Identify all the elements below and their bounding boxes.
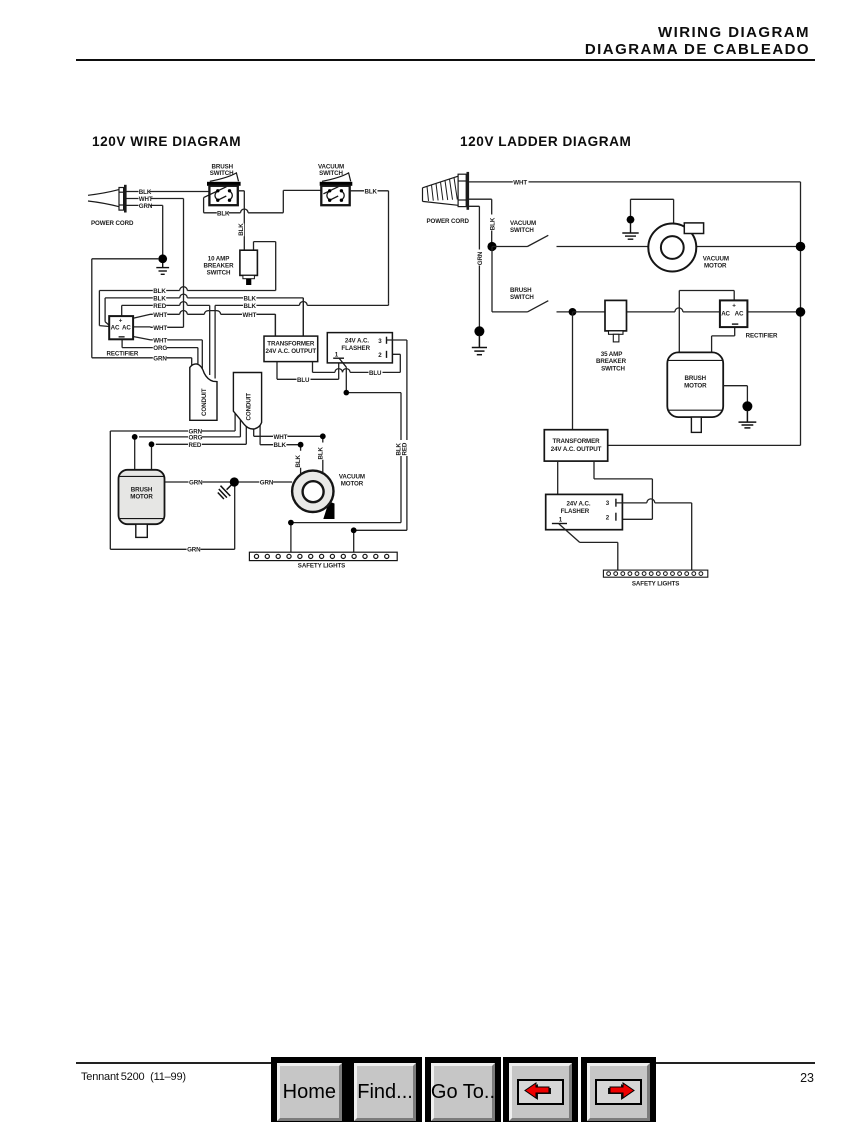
svg-text:WHT: WHT <box>153 325 167 332</box>
breaker CB1 reset button <box>246 279 251 285</box>
svg-text:24V A.C. OUTPUT: 24V A.C. OUTPUT <box>551 446 602 453</box>
wire row2 BLK to transformer and rectifier <box>105 294 303 336</box>
wire rectifier plus loop to brush motor left <box>679 291 734 353</box>
label BLK vertical on breaker wire <box>238 224 245 237</box>
ladder brush motor body <box>667 352 723 417</box>
wire conduit drops WHT BLK to vacuum motor rows <box>254 425 323 445</box>
svg-text:BLK: BLK <box>238 223 245 236</box>
node at right rail brush row <box>796 307 806 317</box>
35 amp breaker collar <box>609 331 624 334</box>
svg-text:BLK: BLK <box>244 295 257 302</box>
35 amp breaker button <box>613 334 619 342</box>
wire row4 WHT rectifier to transformer <box>133 311 275 337</box>
svg-text:FLASHER: FLASHER <box>341 345 370 352</box>
svg-text:120V LADDER DIAGRAM: 120V LADDER DIAGRAM <box>460 134 631 149</box>
wire row3 BLK vacuum switch to conduit <box>215 301 388 378</box>
svg-text:GRN: GRN <box>153 355 167 362</box>
wire transformer right to flasher pin2 <box>594 461 652 519</box>
ground symbol under power cord <box>156 263 169 274</box>
svg-text:BRUSH: BRUSH <box>685 375 707 382</box>
wire breaker top-right loop to BLK row1 <box>254 242 276 291</box>
svg-text:VACUUM: VACUUM <box>703 256 729 263</box>
svg-text:BLK: BLK <box>489 217 496 230</box>
svg-text:GRN: GRN <box>260 480 274 487</box>
brush motor bottom band <box>119 518 165 520</box>
breaker CB1 body <box>240 250 258 275</box>
svg-text:MOTOR: MOTOR <box>341 481 364 488</box>
vacuum switch S2 body <box>321 186 349 205</box>
svg-text:BLK: BLK <box>274 442 287 449</box>
svg-text:ORG: ORG <box>153 345 167 352</box>
svg-text:RED: RED <box>189 442 202 449</box>
brush switch S1 lever <box>210 173 239 181</box>
svg-text:SWITCH: SWITCH <box>510 294 534 301</box>
power cord P1 plug body <box>88 185 125 213</box>
wire BLK below brush switch to vacuum switch riser <box>204 190 321 212</box>
svg-text:BLK: BLK <box>365 188 378 195</box>
label BLK vacuum row <box>273 442 286 449</box>
svg-text:BREAKER: BREAKER <box>204 262 235 269</box>
wire BLK from plug down to vacuum switch node <box>469 199 492 246</box>
svg-text:SWITCH: SWITCH <box>601 365 625 372</box>
rectifier REC1 body <box>109 316 133 339</box>
flasher pin1 lever <box>339 359 346 368</box>
label BLK row2 right <box>243 295 256 302</box>
junction node at power cord ground <box>158 254 167 263</box>
vacuum motor M2 body <box>292 471 333 512</box>
node GRN junction <box>230 477 239 486</box>
brush switch S1 body <box>209 186 237 205</box>
vacuum switch S2 top bar <box>320 182 353 186</box>
label ORG row7 <box>153 344 167 351</box>
svg-text:MOTOR: MOTOR <box>704 263 727 270</box>
vacuum switch contact dots <box>328 189 343 202</box>
node brush row junction <box>569 308 577 316</box>
brush motor top band <box>119 475 165 477</box>
vacuum switch blade <box>323 187 338 194</box>
svg-text:BLU: BLU <box>369 370 382 377</box>
vacuum switch S2 lever <box>322 173 351 181</box>
ground node brush motor <box>742 401 752 411</box>
wire row8 GRN ground rail to conduit <box>92 358 192 367</box>
brush switch blade to lower-left wire <box>204 187 227 198</box>
wire row1 BLK breaker to rectifier left <box>99 287 275 327</box>
wire flasher lever to safety lights <box>291 367 401 552</box>
svg-text:BLK: BLK <box>295 454 302 467</box>
svg-text:POWER CORD: POWER CORD <box>91 220 134 227</box>
vacuum switch contact arcs <box>327 191 344 200</box>
ground symbol vacuum motor <box>622 223 638 239</box>
node vacuum switch feed <box>487 242 496 251</box>
ladder transformer body <box>544 430 607 461</box>
svg-text:WHT: WHT <box>153 312 167 319</box>
svg-text:35 AMP: 35 AMP <box>601 351 623 358</box>
svg-text:RED: RED <box>402 442 409 455</box>
svg-text:RECTIFIER: RECTIFIER <box>746 332 778 339</box>
svg-text:BLK: BLK <box>317 446 324 459</box>
ladder brush motor shaft <box>691 417 701 432</box>
node at pin3 light drop <box>351 527 357 533</box>
svg-text:24V A.C.: 24V A.C. <box>345 337 369 344</box>
rectifier minus mark <box>119 336 125 337</box>
svg-text:WHT: WHT <box>153 337 167 344</box>
label GRN bottom row <box>187 546 201 553</box>
svg-text:SWITCH: SWITCH <box>319 170 343 177</box>
ladder rectifier body <box>720 300 748 327</box>
vacuum switch contact ladder <box>492 235 648 246</box>
wire BLK from power cord to brush switch <box>127 191 210 193</box>
svg-text:VACUUM: VACUUM <box>510 220 536 227</box>
wire conduit drops GRN ORG RED to lower rows <box>110 410 246 444</box>
svg-text:GRN: GRN <box>477 251 484 265</box>
wire BLK drop to vacuum motor left <box>300 445 302 475</box>
node BLK at WHT row <box>298 442 304 448</box>
ground node vacuum motor <box>627 216 635 224</box>
svg-text:RECTIFIER: RECTIFIER <box>107 351 139 358</box>
svg-text:WHT: WHT <box>139 196 153 203</box>
wire BLK down to brush switch row <box>492 247 527 312</box>
safety lights bar <box>249 552 397 560</box>
wire RED drop to brush motor <box>151 444 153 470</box>
label BLK row2 left <box>153 295 166 302</box>
wire row7 ORG rectifier minus to conduit <box>122 339 198 368</box>
ladder brush motor bottom band <box>668 409 724 411</box>
svg-text:BLU: BLU <box>297 377 310 384</box>
svg-text:BLK: BLK <box>139 189 152 196</box>
svg-text:120V WIRE DIAGRAM: 120V WIRE DIAGRAM <box>92 134 241 149</box>
wire GRN from plug down to ground <box>469 206 479 327</box>
brush motor M1 body <box>119 470 165 524</box>
vacuum motor M2 hub <box>303 481 324 502</box>
svg-text:RED: RED <box>153 303 166 310</box>
svg-text:WHT: WHT <box>513 180 527 187</box>
ladder safety lights bar <box>603 570 707 577</box>
wire BLU transformer to flasher pin2 <box>313 354 401 372</box>
vacuum motor M2 scroll outlet <box>323 502 334 520</box>
label ORG lower row <box>188 434 202 441</box>
transformer T1 body <box>264 336 318 362</box>
svg-text:CONDUIT: CONDUIT <box>201 388 208 416</box>
node at right rail vacuum row <box>796 242 806 252</box>
svg-text:MOTOR: MOTOR <box>684 382 707 389</box>
svg-text:BLK: BLK <box>153 288 166 295</box>
ground symbol brush motor <box>739 410 757 428</box>
ladder vacuum motor body <box>648 224 696 272</box>
wire BLU transformer to flasher pin1 <box>277 362 339 380</box>
svg-text:SWITCH: SWITCH <box>207 269 231 276</box>
conduit sleeve 1 <box>190 364 217 420</box>
node BLK at BLK row <box>320 433 326 439</box>
wire brush motor to ground <box>723 386 747 402</box>
wire pin1 lever to safety lights <box>559 524 618 570</box>
wire vacuum motor frame ground <box>631 199 674 224</box>
label WHT row6 <box>153 337 167 344</box>
node at lever corner <box>344 390 350 396</box>
svg-text:24V A.C. OUTPUT: 24V A.C. OUTPUT <box>266 348 317 355</box>
ladder vacuum motor hub <box>661 236 684 259</box>
svg-text:BRUSH: BRUSH <box>131 486 153 493</box>
ladder flasher body <box>546 494 623 529</box>
breaker CB1 collar <box>243 275 255 278</box>
svg-text:GRN: GRN <box>187 547 201 554</box>
wire WHT from power cord down to rectifier row <box>127 199 184 328</box>
label WHT row4 left <box>153 311 167 318</box>
label BLK row1 <box>153 287 166 294</box>
ladder safety lights lamps <box>607 572 703 576</box>
svg-text:CONDUIT: CONDUIT <box>246 393 253 421</box>
wire brush row to transformer top <box>572 312 574 430</box>
svg-text:GRN: GRN <box>139 203 153 210</box>
wire row3 RED rectifier plus to conduit <box>122 302 210 375</box>
svg-text:WHT: WHT <box>274 434 288 441</box>
svg-text:AC: AC <box>122 324 131 331</box>
label RED lower row <box>188 441 202 448</box>
svg-text:SWITCH: SWITCH <box>510 227 534 234</box>
node at safety light drop <box>288 520 294 526</box>
safety lights lamps <box>254 554 388 558</box>
wire brush row to rectifier and rail <box>573 308 801 312</box>
svg-text:POWER CORD: POWER CORD <box>427 218 470 225</box>
ladder vacuum motor outlet <box>684 223 703 234</box>
ground symbol ladder left <box>472 335 487 355</box>
wire GRN brush motor to vacuum motor <box>165 481 293 483</box>
flasher FL1 body <box>327 333 392 363</box>
brush switch blade 2 <box>218 196 227 200</box>
35 amp breaker body <box>605 300 627 331</box>
wire brush switch to breaker <box>238 191 245 250</box>
transformer T1 top wires <box>275 298 303 336</box>
node RED at brush motor <box>149 441 155 447</box>
wire GRN left rail down and bottom row <box>110 431 234 549</box>
svg-text:SAFETY LIGHTS: SAFETY LIGHTS <box>298 563 345 570</box>
svg-text:+: + <box>732 303 736 310</box>
wire row5 WHT rectifier to power cord white <box>133 326 183 328</box>
brush switch contact ladder <box>527 301 572 312</box>
brush switch contact dots <box>216 189 231 202</box>
chassis ground symbol at green node <box>218 482 235 499</box>
wire BLK right of vacuum switch down to BLK row <box>350 191 389 304</box>
wire row6 WHT rectifier to conduit <box>133 337 202 371</box>
svg-text:MOTOR: MOTOR <box>130 493 153 500</box>
brush motor shaft <box>136 524 148 537</box>
svg-text:TRANSFORMER: TRANSFORMER <box>267 341 315 348</box>
wire vacuum motor to right rail <box>697 246 801 248</box>
label WHT vacuum row <box>273 433 287 440</box>
ground node under GRN <box>474 326 484 336</box>
conduit sleeve 2 <box>233 373 261 430</box>
label WHT row5 <box>153 324 167 331</box>
brush switch contact arcs <box>215 191 232 200</box>
label GRN lower row <box>188 428 202 435</box>
right rail vertical <box>608 182 801 446</box>
wire ORG drop to brush motor <box>134 437 136 470</box>
label WHT row4 right <box>242 311 256 318</box>
svg-text:BLK: BLK <box>153 295 166 302</box>
label GRN motor row right <box>259 479 273 486</box>
vacuum switch blade 2 <box>330 196 339 200</box>
wire rectifier minus to brush motor right <box>712 327 735 352</box>
wire BLK drop to vacuum motor right <box>322 436 324 472</box>
svg-text:BLK: BLK <box>244 303 257 310</box>
ladder rectifier minus <box>732 323 738 324</box>
svg-text:24V A.C.: 24V A.C. <box>566 501 590 508</box>
wire WHT top rail <box>469 181 801 183</box>
label GRN row8 <box>153 355 167 362</box>
svg-text:BRUSH: BRUSH <box>510 287 532 294</box>
svg-text:BREAKER: BREAKER <box>596 358 627 365</box>
node ORG at brush motor <box>132 434 138 440</box>
ladder power cord plug <box>423 172 468 210</box>
wire GRN from power cord to ground junction <box>92 205 163 357</box>
svg-text:TRANSFORMER: TRANSFORMER <box>552 438 600 445</box>
svg-text:AC: AC <box>111 324 120 331</box>
label BLK row3 right <box>243 302 256 309</box>
svg-text:BLK: BLK <box>217 210 230 217</box>
svg-text:ORG: ORG <box>189 435 203 442</box>
svg-text:10 AMP: 10 AMP <box>208 255 230 262</box>
wire flasher pin3 to safety lights <box>354 340 407 552</box>
svg-text:FLASHER: FLASHER <box>561 508 590 515</box>
svg-text:AC: AC <box>735 311 744 318</box>
wire transformer left to flasher top <box>557 461 559 494</box>
svg-text:SAFETY LIGHTS: SAFETY LIGHTS <box>632 580 679 587</box>
svg-text:AC: AC <box>721 311 730 318</box>
ladder brush motor top band <box>668 359 724 361</box>
brush switch S1 top bar <box>207 182 241 186</box>
wire pin3 to safety lights <box>616 499 692 570</box>
svg-text:GRN: GRN <box>189 480 203 487</box>
label GRN motor row left <box>189 479 203 486</box>
label RED row3 <box>153 302 166 309</box>
svg-text:WHT: WHT <box>243 312 257 319</box>
svg-text:VACUUM: VACUUM <box>339 474 365 481</box>
